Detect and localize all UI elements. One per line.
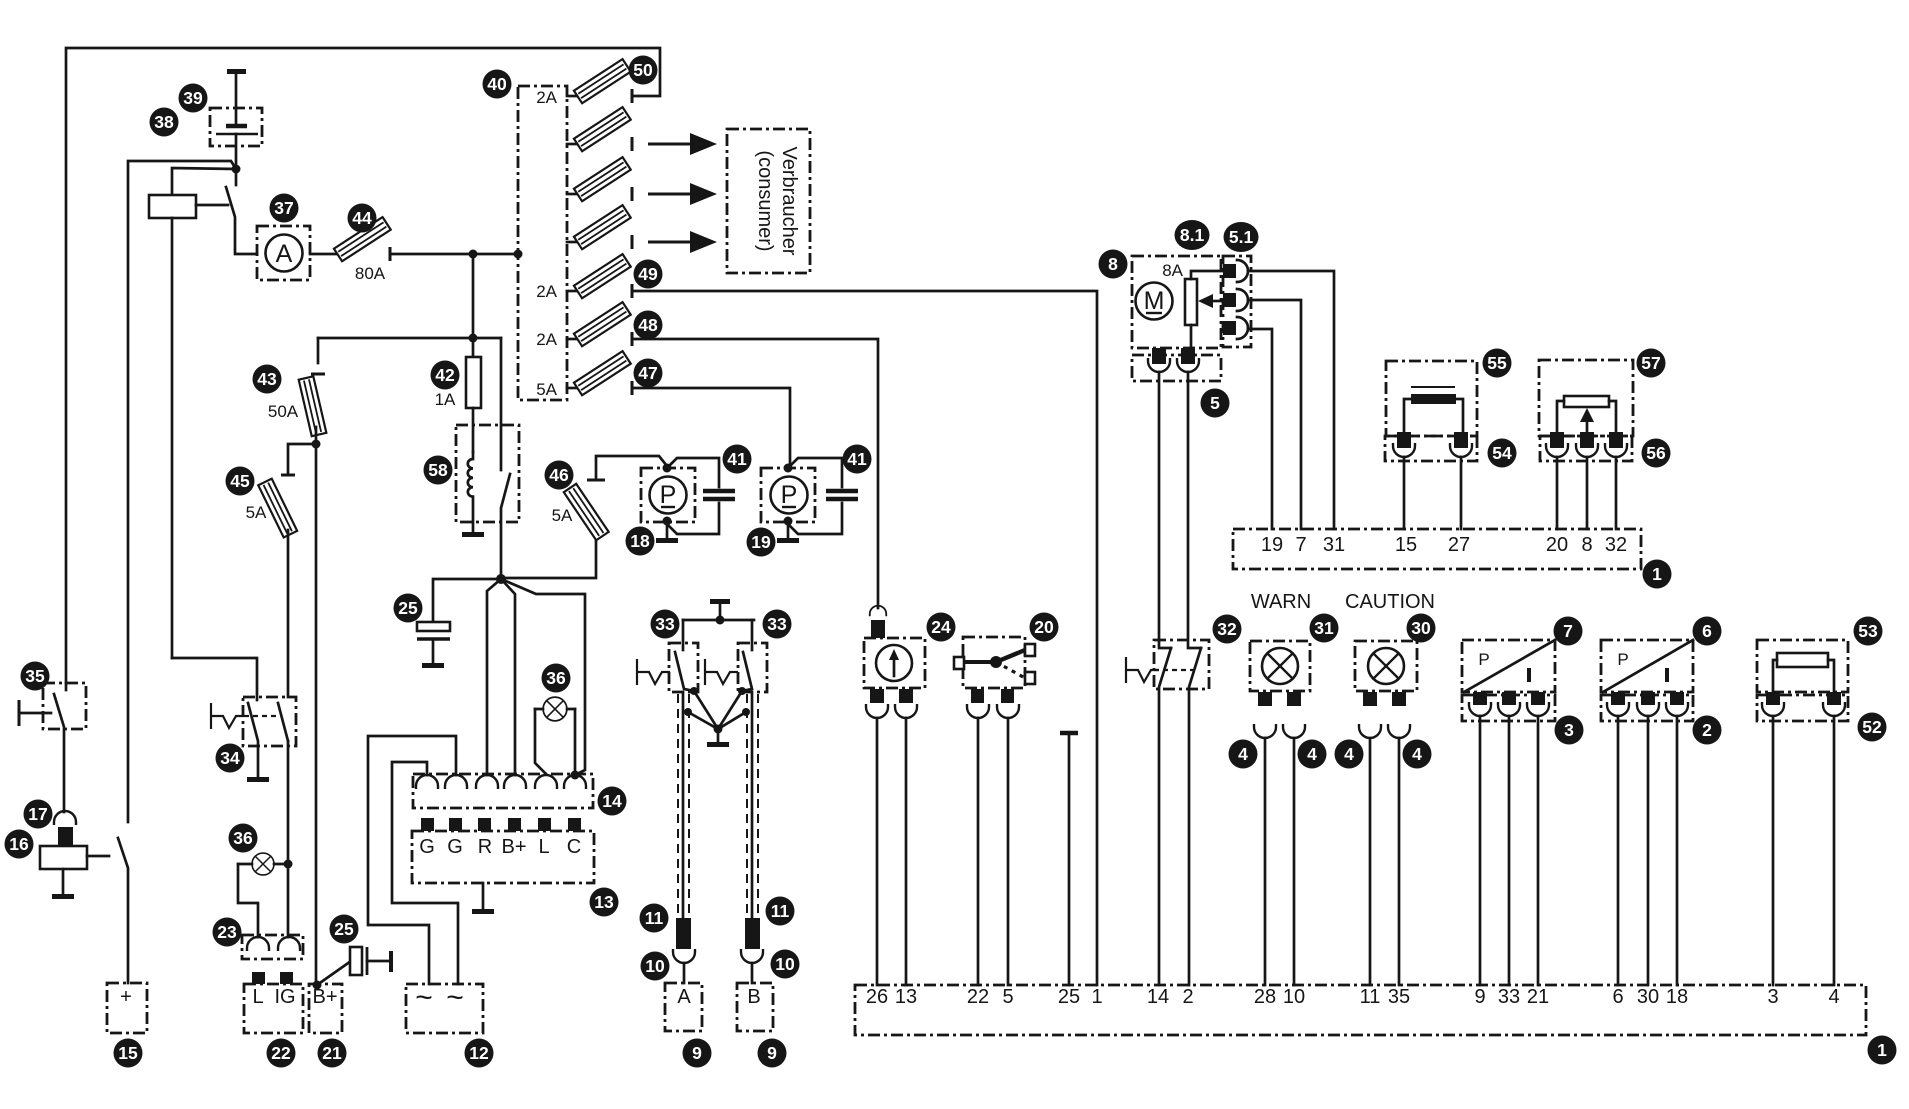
svg-text:5A: 5A bbox=[246, 503, 267, 522]
svg-text:28: 28 bbox=[1254, 986, 1276, 1008]
svg-text:(consumer): (consumer) bbox=[754, 150, 776, 251]
svg-text:2A: 2A bbox=[536, 330, 557, 349]
svg-text:22: 22 bbox=[967, 986, 989, 1008]
svg-text:25: 25 bbox=[398, 598, 418, 618]
svg-text:11: 11 bbox=[771, 901, 790, 921]
svg-text:3: 3 bbox=[1767, 986, 1778, 1008]
svg-text:L: L bbox=[252, 986, 263, 1008]
svg-text:5A: 5A bbox=[552, 506, 573, 525]
svg-text:34: 34 bbox=[220, 748, 240, 768]
svg-text:45: 45 bbox=[230, 471, 250, 491]
svg-text:5A: 5A bbox=[536, 380, 557, 399]
svg-text:1A: 1A bbox=[435, 390, 456, 409]
svg-text:15: 15 bbox=[118, 1043, 138, 1063]
svg-text:18: 18 bbox=[1666, 986, 1688, 1008]
svg-text:M: M bbox=[1144, 287, 1165, 315]
svg-text:P: P bbox=[660, 481, 677, 509]
svg-text:14: 14 bbox=[1147, 986, 1169, 1008]
svg-text:10: 10 bbox=[645, 956, 665, 976]
svg-text:44: 44 bbox=[352, 208, 372, 228]
svg-text:42: 42 bbox=[435, 365, 455, 385]
svg-text:30: 30 bbox=[1411, 618, 1431, 638]
svg-text:7: 7 bbox=[1295, 534, 1306, 556]
svg-text:14: 14 bbox=[602, 791, 622, 811]
svg-text:1: 1 bbox=[1652, 564, 1662, 584]
svg-text:53: 53 bbox=[1858, 621, 1878, 641]
svg-text:49: 49 bbox=[638, 264, 658, 284]
svg-text:4: 4 bbox=[1828, 986, 1839, 1008]
svg-text:A: A bbox=[677, 986, 691, 1008]
svg-text:22: 22 bbox=[271, 1043, 291, 1063]
svg-text:12: 12 bbox=[469, 1043, 489, 1063]
svg-text:33: 33 bbox=[767, 614, 787, 634]
svg-text:~: ~ bbox=[415, 981, 433, 1014]
svg-text:4: 4 bbox=[1238, 744, 1248, 764]
svg-text:A: A bbox=[276, 240, 293, 268]
svg-text:7: 7 bbox=[1563, 621, 1573, 641]
svg-text:50: 50 bbox=[633, 60, 653, 80]
svg-text:3: 3 bbox=[1564, 720, 1574, 740]
svg-text:54: 54 bbox=[1492, 443, 1512, 463]
svg-text:P: P bbox=[1617, 650, 1628, 669]
svg-text:P: P bbox=[781, 481, 798, 509]
svg-text:P: P bbox=[1478, 650, 1489, 669]
svg-text:5: 5 bbox=[1210, 393, 1220, 413]
svg-text:32: 32 bbox=[1605, 534, 1627, 556]
svg-text:27: 27 bbox=[1448, 534, 1470, 556]
svg-text:~: ~ bbox=[446, 981, 464, 1014]
svg-text:31: 31 bbox=[1314, 618, 1334, 638]
svg-text:55: 55 bbox=[1487, 353, 1507, 373]
svg-text:23: 23 bbox=[217, 922, 237, 942]
svg-text:37: 37 bbox=[274, 198, 293, 218]
svg-text:58: 58 bbox=[428, 460, 448, 480]
svg-text:36: 36 bbox=[233, 828, 253, 848]
svg-text:50A: 50A bbox=[268, 402, 299, 421]
svg-text:4: 4 bbox=[1307, 744, 1317, 764]
svg-text:18: 18 bbox=[630, 531, 650, 551]
svg-text:25: 25 bbox=[334, 919, 354, 939]
svg-text:8: 8 bbox=[1108, 254, 1118, 274]
svg-text:21: 21 bbox=[322, 1043, 342, 1063]
svg-text:1: 1 bbox=[1877, 1040, 1887, 1060]
svg-text:33: 33 bbox=[655, 614, 675, 634]
svg-text:R: R bbox=[478, 836, 492, 858]
svg-text:20: 20 bbox=[1546, 534, 1568, 556]
svg-text:B+: B+ bbox=[501, 836, 526, 858]
svg-text:2A: 2A bbox=[536, 282, 557, 301]
svg-text:8: 8 bbox=[1581, 534, 1592, 556]
svg-text:5: 5 bbox=[1002, 986, 1013, 1008]
svg-text:G: G bbox=[419, 836, 435, 858]
svg-text:G: G bbox=[447, 836, 463, 858]
svg-text:B: B bbox=[747, 986, 760, 1008]
svg-text:13: 13 bbox=[895, 986, 917, 1008]
svg-text:6: 6 bbox=[1702, 621, 1712, 641]
svg-text:10: 10 bbox=[1283, 986, 1305, 1008]
svg-text:26: 26 bbox=[866, 986, 888, 1008]
svg-text:16: 16 bbox=[9, 834, 29, 854]
svg-text:52: 52 bbox=[1862, 717, 1882, 737]
svg-text:2: 2 bbox=[1702, 720, 1712, 740]
svg-text:32: 32 bbox=[1217, 619, 1237, 639]
svg-text:9: 9 bbox=[767, 1043, 777, 1063]
svg-text:31: 31 bbox=[1323, 534, 1345, 556]
svg-text:WARN: WARN bbox=[1251, 591, 1311, 613]
svg-text:38: 38 bbox=[154, 112, 174, 132]
svg-text:36: 36 bbox=[546, 668, 566, 688]
svg-text:11: 11 bbox=[1360, 986, 1381, 1008]
svg-text:4: 4 bbox=[1344, 744, 1354, 764]
svg-text:CAUTION: CAUTION bbox=[1345, 591, 1435, 613]
svg-text:20: 20 bbox=[1034, 617, 1054, 637]
svg-text:13: 13 bbox=[594, 892, 614, 912]
svg-text:1: 1 bbox=[1091, 986, 1102, 1008]
svg-text:48: 48 bbox=[638, 315, 658, 335]
svg-text:IG: IG bbox=[274, 986, 295, 1008]
svg-text:41: 41 bbox=[727, 449, 747, 469]
svg-text:9: 9 bbox=[1474, 986, 1485, 1008]
svg-text:4: 4 bbox=[1412, 744, 1422, 764]
svg-text:5.1: 5.1 bbox=[1229, 227, 1254, 247]
svg-text:15: 15 bbox=[1395, 534, 1417, 556]
svg-text:L: L bbox=[538, 836, 549, 858]
svg-text:10: 10 bbox=[775, 954, 795, 974]
svg-text:30: 30 bbox=[1637, 986, 1659, 1008]
svg-text:56: 56 bbox=[1646, 443, 1666, 463]
svg-text:35: 35 bbox=[25, 666, 45, 686]
svg-text:47: 47 bbox=[638, 363, 657, 383]
svg-text:2: 2 bbox=[1182, 986, 1193, 1008]
svg-text:2A: 2A bbox=[536, 88, 557, 107]
svg-text:33: 33 bbox=[1498, 986, 1520, 1008]
svg-text:6: 6 bbox=[1612, 986, 1623, 1008]
svg-text:43: 43 bbox=[257, 369, 277, 389]
svg-text:21: 21 bbox=[1527, 986, 1549, 1008]
svg-text:9: 9 bbox=[692, 1043, 702, 1063]
svg-text:80A: 80A bbox=[355, 264, 386, 283]
svg-text:11: 11 bbox=[645, 908, 664, 928]
svg-text:19: 19 bbox=[751, 532, 771, 552]
svg-text:41: 41 bbox=[847, 449, 867, 469]
svg-text:19: 19 bbox=[1261, 534, 1283, 556]
svg-text:57: 57 bbox=[1641, 353, 1660, 373]
svg-text:40: 40 bbox=[487, 74, 507, 94]
svg-text:46: 46 bbox=[549, 465, 569, 485]
svg-text:17: 17 bbox=[28, 804, 47, 824]
svg-text:8.1: 8.1 bbox=[1180, 225, 1205, 245]
svg-text:24: 24 bbox=[931, 617, 951, 637]
svg-text:+: + bbox=[120, 986, 132, 1008]
svg-text:Verbraucher: Verbraucher bbox=[778, 147, 800, 256]
svg-text:C: C bbox=[567, 836, 581, 858]
svg-text:8A: 8A bbox=[1162, 261, 1183, 280]
svg-text:35: 35 bbox=[1388, 986, 1410, 1008]
svg-text:39: 39 bbox=[183, 88, 203, 108]
svg-text:25: 25 bbox=[1058, 986, 1080, 1008]
